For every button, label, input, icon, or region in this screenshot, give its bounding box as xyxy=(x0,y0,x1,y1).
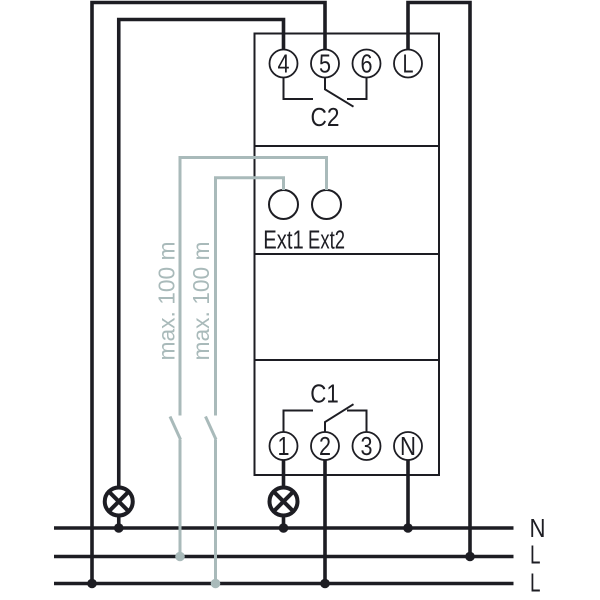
junction: lamp E2 on N bus xyxy=(279,523,289,533)
terminal N xyxy=(394,432,422,461)
terminal 6 xyxy=(353,50,381,79)
terminal Ext2 xyxy=(312,190,341,219)
svg-text:6: 6 xyxy=(361,51,373,79)
wire: gray Ext2 wire upper run to Ext2 terminal xyxy=(180,158,327,416)
svg-text:L: L xyxy=(403,51,414,79)
wire: mains L bus (middle) xyxy=(54,555,514,559)
junction: L riser on L middle bus xyxy=(465,552,475,562)
device divider below C2 section xyxy=(255,145,440,147)
svg-text:Ext2: Ext2 xyxy=(308,227,345,255)
relay contact C2 blade from terminal 5 xyxy=(325,78,354,107)
terminal 3 xyxy=(353,432,381,461)
wire: mains N bus xyxy=(54,526,514,530)
svg-text:max. 100 m: max. 100 m xyxy=(188,242,214,361)
terminal 5 xyxy=(311,50,339,79)
wire: terminal N down to N bus xyxy=(406,460,410,528)
svg-text:2: 2 xyxy=(319,433,331,461)
wire: gray Ext2 wire lower run to L middle bus xyxy=(179,440,182,557)
svg-text:3: 3 xyxy=(361,433,373,461)
junction: left riser on L bottom bus xyxy=(87,579,97,589)
device divider below Ext section xyxy=(255,253,440,255)
relay contact C1 fixed side from terminal 1 xyxy=(284,411,314,433)
svg-text:1: 1 xyxy=(278,433,290,461)
relay contact C1 fixed side from terminal 3 xyxy=(347,411,367,433)
wire: mains L bus (bottom) xyxy=(54,582,514,586)
wire: gray Ext1 wire lower run to L bottom bus xyxy=(214,440,217,584)
junction: Ext1 wire on L bottom bus xyxy=(211,579,221,589)
junction: terminal 2 riser on L bottom bus xyxy=(320,579,330,589)
push button S2 blade in Ext2 wire xyxy=(170,417,181,440)
svg-text:max. 100 m: max. 100 m xyxy=(154,242,180,361)
svg-text:L: L xyxy=(530,570,541,598)
svg-text:L: L xyxy=(530,542,541,570)
terminal L xyxy=(394,50,422,79)
lamp E2 xyxy=(270,488,298,516)
wire: lamp E2 down to N bus xyxy=(282,516,286,529)
wire: from terminal L up, right and down to L middle bus xyxy=(408,3,470,557)
terminal 2 xyxy=(311,432,339,461)
device outline xyxy=(255,34,440,476)
svg-text:C1: C1 xyxy=(310,381,339,409)
svg-text:5: 5 xyxy=(319,51,331,79)
wire: terminal 2 down to L bottom bus xyxy=(323,460,327,584)
device divider above C1 section xyxy=(255,359,440,361)
relay contact C1 blade from terminal 2 xyxy=(325,404,354,432)
svg-text:N: N xyxy=(400,433,416,461)
junction: terminal N riser on N bus xyxy=(403,523,413,533)
relay contact C2 fixed side from terminal 4 xyxy=(284,78,314,100)
svg-text:4: 4 xyxy=(278,51,290,79)
relay contact C2 fixed side from terminal 6 xyxy=(347,78,367,100)
lamp E1 xyxy=(105,488,133,516)
wire: from lamp E1 up and over to terminal 4 xyxy=(119,20,284,488)
wire: gray Ext1 wire upper run to Ext1 terminal xyxy=(216,178,284,416)
wire: from L bottom bus up and over to terminal 5 xyxy=(92,3,325,584)
svg-text:N: N xyxy=(530,515,546,543)
push button S1 blade in Ext1 wire xyxy=(206,417,217,440)
terminal Ext1 xyxy=(269,190,298,219)
wire: terminal 1 down to lamp E2 xyxy=(282,460,286,488)
junction: Ext2 wire on L middle bus xyxy=(175,552,185,562)
terminal 4 xyxy=(270,50,298,79)
junction: lamp E1 on N bus xyxy=(114,523,124,533)
svg-text:C2: C2 xyxy=(311,104,340,132)
svg-text:Ext1: Ext1 xyxy=(263,227,304,255)
terminal 1 xyxy=(270,432,298,461)
wire: lamp E1 down to N bus xyxy=(117,516,121,529)
